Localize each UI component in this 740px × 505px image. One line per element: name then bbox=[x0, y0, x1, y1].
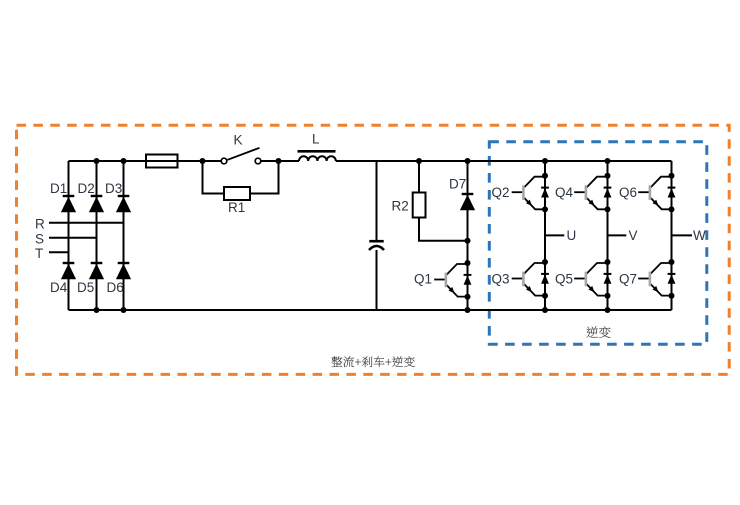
capacitor C1 branch bbox=[376, 161, 378, 240]
node: Q1 emitter / bottom bus bbox=[465, 307, 471, 313]
svg-text:U: U bbox=[567, 228, 577, 243]
wire: DC+ top bus, rectifier to fuse bbox=[69, 160, 147, 162]
transistor Q1 (brake IGBT) bbox=[434, 260, 471, 300]
inductor L bbox=[298, 150, 336, 153]
output U bbox=[545, 234, 564, 236]
diode D3 bbox=[116, 196, 131, 212]
transistor Q6 (IGBT) bbox=[638, 173, 675, 213]
diode D6 bbox=[116, 263, 131, 279]
inverter leg W bbox=[671, 161, 673, 310]
fuse F1 bbox=[146, 160, 221, 162]
transistor Q3 (IGBT) bbox=[512, 259, 549, 299]
svg-text:R1: R1 bbox=[228, 200, 245, 215]
node: leg3 / bottom bus bbox=[121, 307, 127, 313]
svg-text:Q3: Q3 bbox=[492, 272, 510, 287]
node: leg2 / top bus bbox=[94, 158, 100, 164]
resistor R2 branch bbox=[418, 161, 420, 193]
svg-text:L: L bbox=[312, 132, 320, 147]
transistor Q2 (IGBT) bbox=[512, 173, 549, 213]
svg-text:D3: D3 bbox=[105, 181, 122, 196]
svg-text:R: R bbox=[35, 217, 45, 232]
svg-text:Q4: Q4 bbox=[555, 185, 574, 200]
svg-text:D6: D6 bbox=[107, 280, 124, 295]
output W bbox=[672, 234, 693, 236]
node: leg U / top bus bbox=[542, 158, 548, 164]
node: leg2 / bottom bus bbox=[94, 307, 100, 313]
svg-text:Q2: Q2 bbox=[492, 185, 510, 200]
svg-text:Q5: Q5 bbox=[555, 272, 573, 287]
svg-text:Q1: Q1 bbox=[414, 272, 432, 287]
rectifier leg 3 bbox=[123, 161, 125, 310]
rectifier leg 2 bbox=[96, 161, 98, 310]
label: inverter block 逆变 bbox=[587, 326, 611, 338]
wire: top bus from L into inverter bbox=[336, 160, 672, 162]
rectifier leg 1 bbox=[68, 161, 70, 310]
node: K / R1 branch point (right) bbox=[276, 158, 282, 164]
node: leg V / top bus bbox=[605, 158, 611, 164]
phase input T bbox=[49, 251, 69, 253]
svg-text:W: W bbox=[693, 228, 706, 243]
diode D4 bbox=[61, 263, 76, 279]
resistor R1 bypass branch bbox=[203, 161, 225, 194]
svg-text:D5: D5 bbox=[77, 280, 94, 295]
node: leg V / bottom bus bbox=[605, 307, 611, 313]
diode D2 bbox=[89, 196, 104, 212]
svg-text:D2: D2 bbox=[78, 181, 95, 196]
outer orange dashed boundary (rectifier+brake+inverter block) bbox=[17, 125, 730, 374]
svg-text:D1: D1 bbox=[50, 181, 67, 196]
label: caption 整流+刹车+逆变 bbox=[331, 356, 414, 367]
svg-text:D4: D4 bbox=[50, 280, 68, 295]
node: D7 / top bus bbox=[465, 158, 471, 164]
svg-text:S: S bbox=[35, 232, 44, 247]
output V bbox=[608, 234, 627, 236]
node: leg U / bottom bus bbox=[542, 307, 548, 313]
svg-text:K: K bbox=[234, 133, 243, 148]
node: R2 return / D7 column bbox=[465, 238, 471, 244]
svg-text:Q6: Q6 bbox=[619, 185, 637, 200]
inverter leg V bbox=[607, 161, 609, 310]
switch K bbox=[221, 158, 227, 164]
phase input R bbox=[49, 222, 124, 224]
transistor Q4 (IGBT) bbox=[574, 173, 611, 213]
inner blue dashed boundary (inverter block) bbox=[489, 142, 707, 344]
inverter leg U bbox=[544, 161, 546, 310]
diode D5 bbox=[89, 263, 104, 279]
svg-text:D7: D7 bbox=[449, 177, 466, 192]
svg-text:R2: R2 bbox=[392, 199, 409, 214]
wire: switch K to L node bbox=[261, 160, 299, 162]
svg-text:T: T bbox=[35, 246, 43, 261]
node: R2 / top bus bbox=[416, 158, 422, 164]
wire: DC- bottom bus bbox=[69, 309, 672, 311]
diode D1 bbox=[61, 196, 76, 212]
node: K / R1 branch point (left) bbox=[200, 158, 206, 164]
brake chopper column wire bbox=[467, 161, 469, 310]
transistor Q7 (IGBT) bbox=[638, 259, 675, 299]
node: leg3 / top bus bbox=[121, 158, 127, 164]
phase input S bbox=[49, 237, 97, 239]
diode D7 (pointing up, cathode bar on top) bbox=[460, 194, 475, 210]
svg-text:Q7: Q7 bbox=[619, 272, 637, 287]
svg-text:V: V bbox=[629, 228, 638, 243]
transistor Q5 (IGBT) bbox=[574, 259, 611, 299]
